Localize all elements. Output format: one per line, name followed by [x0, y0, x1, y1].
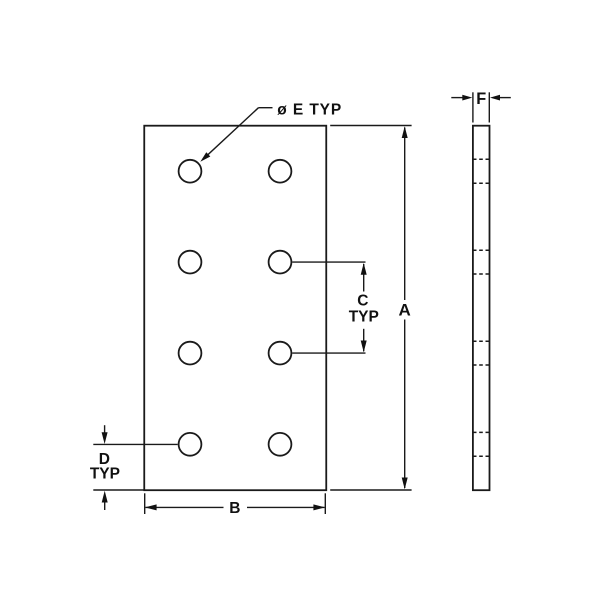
svg-text:TYP: TYP: [90, 466, 120, 483]
svg-text:B: B: [229, 500, 240, 517]
svg-text:A: A: [399, 301, 411, 320]
svg-text:C: C: [357, 292, 368, 309]
svg-text:F: F: [476, 90, 486, 108]
svg-text:TYP: TYP: [349, 308, 379, 325]
svg-text:ø E TYP: ø E TYP: [277, 101, 342, 118]
